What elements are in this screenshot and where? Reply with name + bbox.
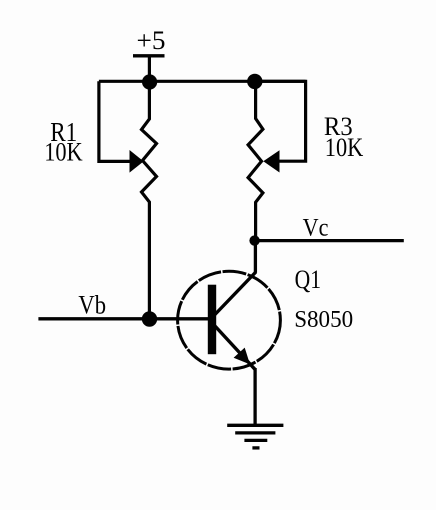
- svg-text:Vc: Vc: [303, 214, 329, 241]
- svg-text:10K: 10K: [325, 133, 364, 162]
- ground: [227, 425, 283, 448]
- R1 wiper arrow: [130, 150, 144, 173]
- svg-text:Vb: Vb: [78, 290, 106, 319]
- node C: collector / Vc junction: [249, 235, 259, 245]
- node B: rail / R3 junction: [247, 74, 262, 89]
- transistor Q1 base bar: [208, 285, 216, 355]
- transistor Q1 collector stroke: [214, 272, 256, 316]
- resistor R1 body (zigzag): [142, 82, 157, 319]
- node A: rail / R1 junction: [142, 74, 157, 89]
- resistor R3 body (zigzag): [248, 82, 263, 240]
- svg-text:Q1: Q1: [295, 264, 321, 294]
- node D: base / Vb junction: [142, 311, 157, 326]
- wire: top rail: [99, 80, 306, 83]
- svg-text:+5: +5: [137, 26, 166, 55]
- wire: emitter to ground: [253, 368, 256, 425]
- wire: collector vertical: [254, 241, 257, 273]
- transistor Q1 emitter stroke: [215, 326, 256, 370]
- svg-text:10K: 10K: [44, 138, 83, 167]
- +5 supply bar: [133, 54, 165, 57]
- svg-text:S8050: S8050: [294, 307, 353, 333]
- transistor Q1 emitter arrow: [234, 348, 250, 365]
- transistor Q1 circle: [178, 271, 281, 369]
- wire: +5 bar to rail: [148, 56, 151, 82]
- wire: R1 wiper loop (left): [99, 81, 131, 161]
- wire: Vb input: [38, 317, 208, 320]
- R3 wiper arrow: [263, 150, 279, 172]
- wire: R3 wiper loop (right): [255, 81, 306, 161]
- wire: Vc output: [255, 239, 404, 242]
